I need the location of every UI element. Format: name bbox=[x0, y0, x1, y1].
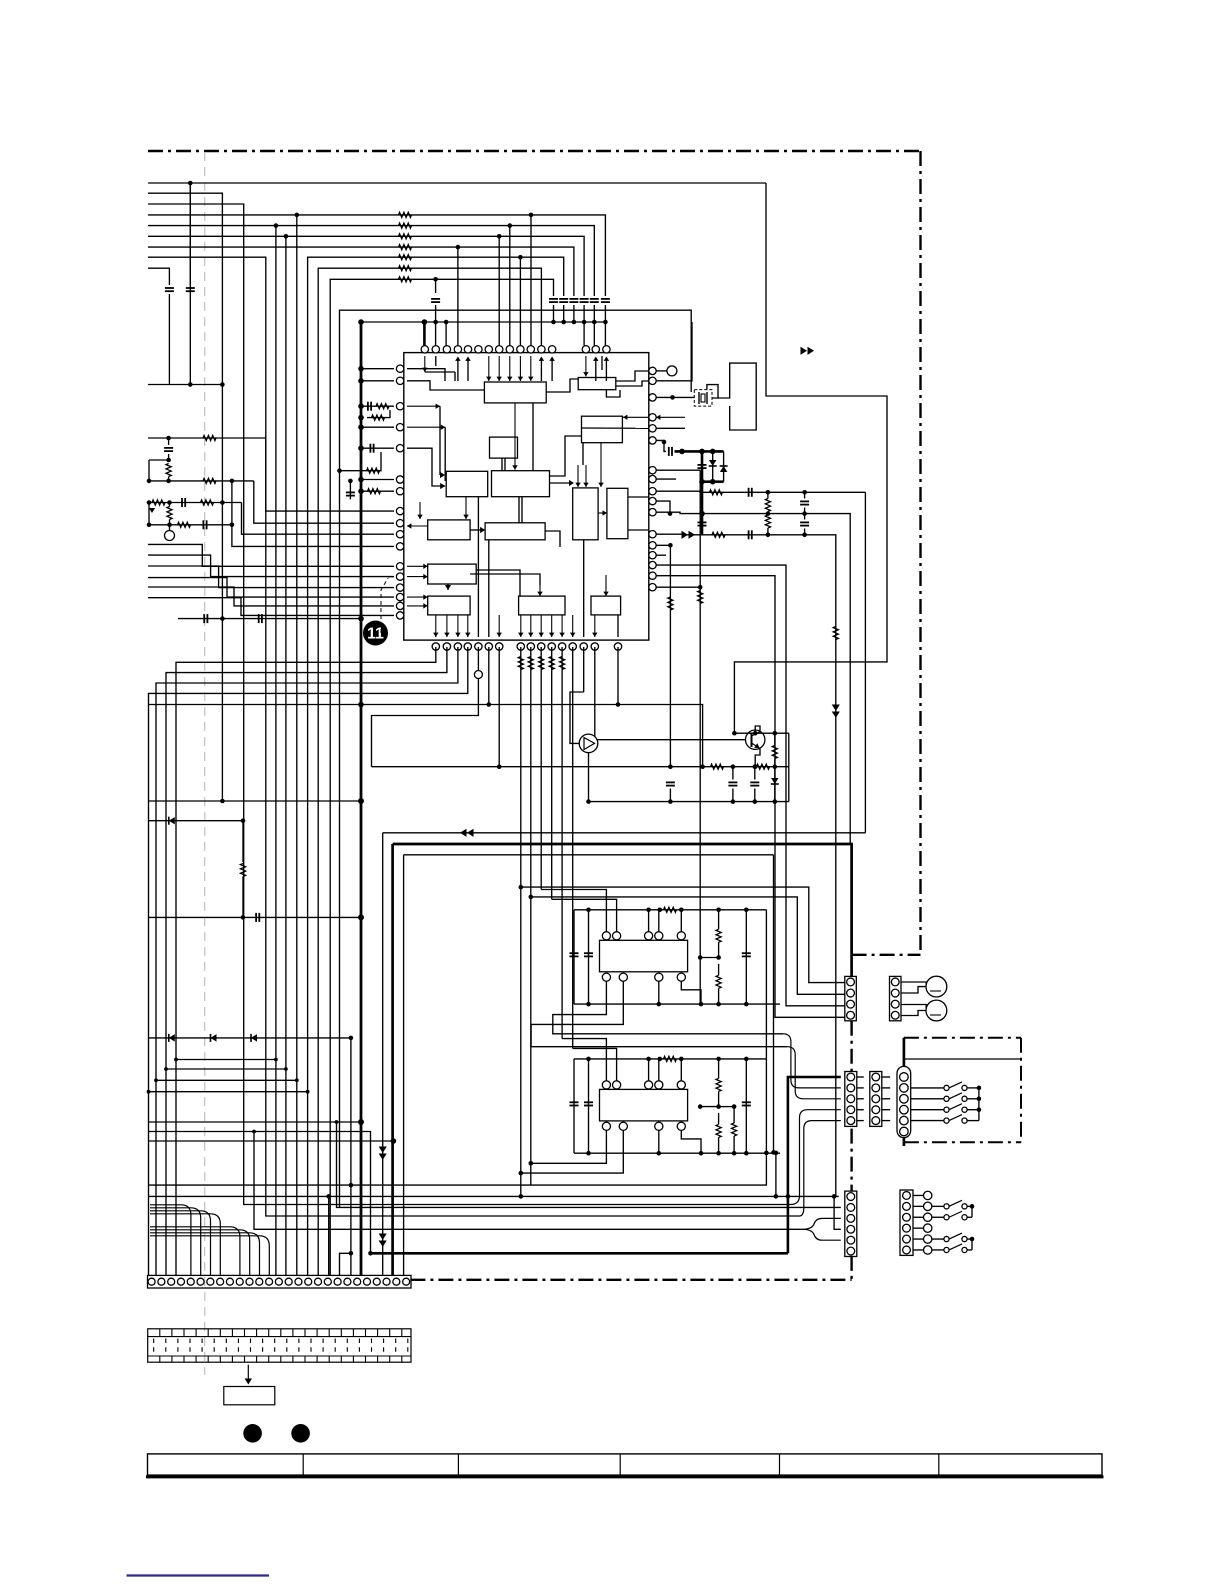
junction bbox=[753, 764, 758, 769]
junction bbox=[368, 1251, 373, 1256]
wire pinfeed bbox=[435, 305, 437, 346]
wire int down bbox=[520, 615, 522, 637]
wire cap2 leg bbox=[588, 910, 590, 1004]
junction bbox=[147, 1090, 151, 1094]
wire link45 bbox=[882, 1120, 890, 1122]
wire link34 bbox=[857, 1098, 864, 1100]
wire fan 524->546 bbox=[232, 525, 394, 547]
wire loopA bbox=[383, 832, 866, 834]
transistor Q1 bbox=[579, 734, 598, 753]
junction bbox=[679, 908, 684, 913]
pin bbox=[527, 346, 534, 353]
capacitor filter bbox=[569, 298, 578, 300]
wire rail bottom bbox=[574, 1003, 780, 1005]
capacitor bbox=[698, 464, 707, 466]
junction bbox=[592, 320, 597, 325]
wire cap bottom bbox=[573, 305, 575, 322]
resistor bbox=[399, 234, 412, 239]
wire y1185 bbox=[148, 1153, 766, 1185]
junction bbox=[658, 908, 663, 913]
wire int down bbox=[467, 615, 469, 637]
wire stair1 bbox=[176, 1059, 276, 1061]
pin bbox=[677, 973, 685, 981]
wire left to b5b bbox=[407, 426, 445, 428]
pin bbox=[619, 973, 627, 981]
wire bp4 jog bbox=[681, 981, 701, 1004]
resistor vert bbox=[765, 515, 770, 528]
connector pin bbox=[847, 1236, 855, 1244]
junction bbox=[164, 1067, 168, 1071]
wire pin488 drop bbox=[488, 647, 490, 705]
junction bbox=[699, 449, 705, 455]
junction bbox=[335, 1120, 339, 1124]
wire cn6 v bbox=[834, 1196, 841, 1229]
junction bbox=[188, 382, 193, 387]
wire x865 vert bbox=[864, 492, 866, 833]
capacitor filter bbox=[590, 298, 599, 300]
wire sw2 lead bbox=[932, 1205, 944, 1207]
resistor vert bbox=[166, 464, 171, 477]
wire pin369 stub bbox=[361, 368, 394, 370]
junction bbox=[786, 1194, 791, 1199]
pin bbox=[396, 593, 403, 600]
wire bus line3 bbox=[148, 204, 791, 1205]
connector pin bbox=[847, 1073, 855, 1081]
junction bbox=[349, 1251, 354, 1256]
junction bbox=[358, 616, 364, 622]
wire b12 in2 bbox=[407, 605, 428, 607]
resistor bbox=[664, 1056, 677, 1061]
wire pin618 drop bbox=[618, 647, 703, 767]
pin bbox=[649, 552, 656, 559]
wire cap stub bbox=[168, 438, 170, 445]
wire bus line bbox=[148, 215, 605, 296]
wire rv3 bbox=[774, 733, 776, 745]
wire pin555 stub bbox=[656, 554, 666, 556]
connector pin bbox=[847, 1214, 855, 1222]
pin bbox=[443, 643, 450, 650]
dashed leader bbox=[388, 576, 394, 578]
connector pin bbox=[177, 1278, 184, 1285]
wire cv5 bbox=[754, 767, 756, 780]
switch S bbox=[944, 1096, 949, 1101]
wire y820 diode bbox=[148, 821, 243, 862]
junction bbox=[679, 1057, 684, 1062]
capacitor bbox=[164, 447, 173, 449]
wire int bbox=[424, 356, 426, 372]
wire link34 bbox=[857, 1120, 864, 1122]
wire rv bot bbox=[718, 1113, 720, 1125]
switch box bottom bbox=[904, 1141, 1021, 1143]
pin bbox=[649, 425, 656, 432]
wire pin478 drop2 bbox=[372, 679, 479, 767]
switch box left bold bbox=[903, 1038, 906, 1067]
wire b7b8 bbox=[598, 512, 607, 514]
resistor bbox=[201, 500, 214, 505]
junction bbox=[662, 440, 667, 445]
connector shell bbox=[890, 976, 902, 1020]
wire b3 out bbox=[582, 427, 649, 429]
connector pin bbox=[872, 1106, 880, 1114]
wire int down bbox=[617, 615, 619, 637]
resistor bbox=[399, 277, 412, 282]
junction bbox=[977, 1107, 982, 1112]
capacitor vert bbox=[800, 500, 809, 502]
pin bbox=[613, 1081, 621, 1089]
pin bbox=[602, 1122, 610, 1130]
capacitor bbox=[202, 520, 204, 529]
wire cap bottom bbox=[563, 305, 565, 322]
wire b1 down to b6 bbox=[514, 403, 516, 470]
wire cap a2 bbox=[168, 294, 170, 385]
resistor vert bbox=[716, 975, 721, 988]
junction bbox=[699, 1002, 704, 1007]
junction bbox=[358, 424, 364, 430]
wire x328 down bbox=[328, 1196, 330, 1275]
shield border corner to CN (dash-dot) bbox=[852, 954, 921, 956]
junction bbox=[616, 702, 621, 707]
pin bbox=[649, 542, 656, 549]
junction bbox=[773, 764, 778, 769]
wire drop x296 bbox=[296, 215, 298, 1276]
wire esc1 bbox=[176, 647, 436, 1275]
pin bbox=[485, 643, 492, 650]
wire b11 in2 bbox=[407, 576, 428, 578]
pin bbox=[538, 643, 545, 650]
wire b13 top bbox=[539, 585, 541, 596]
pin bbox=[649, 497, 656, 504]
junction bbox=[284, 1067, 288, 1071]
junction bbox=[603, 320, 608, 325]
shield dashdot v3 bbox=[850, 1129, 852, 1192]
wire int long1 bbox=[601, 356, 603, 370]
wire bp3 down bbox=[658, 981, 660, 1004]
junction bbox=[349, 1183, 354, 1188]
wire loopC bbox=[404, 854, 774, 856]
wire rv bbox=[767, 492, 769, 498]
switch S bbox=[944, 1107, 949, 1112]
junction bbox=[306, 1090, 310, 1094]
wire cap down bbox=[168, 454, 170, 460]
wire pin417 stub bbox=[656, 416, 685, 418]
wire x350 down bbox=[350, 1038, 352, 1276]
junction bbox=[977, 1086, 982, 1091]
resistor bbox=[367, 468, 380, 473]
junction bbox=[970, 1237, 975, 1242]
resistor vert bbox=[765, 499, 770, 512]
wire riser seg10 bbox=[330, 279, 553, 1275]
resistor bbox=[152, 500, 165, 505]
resistor vert bbox=[518, 657, 523, 670]
junction bbox=[977, 1097, 982, 1102]
connector pin bbox=[900, 1073, 909, 1082]
wire drop bbox=[540, 647, 542, 890]
diode pair D2 bbox=[723, 451, 725, 481]
junction bbox=[710, 449, 716, 455]
wire int down bbox=[551, 615, 553, 637]
wire pin380 r bbox=[656, 322, 692, 381]
connector shell bbox=[845, 976, 857, 1020]
resistor vert bbox=[167, 507, 172, 520]
diode left bbox=[148, 503, 150, 525]
junction bbox=[668, 764, 673, 769]
junction bbox=[744, 908, 749, 913]
pin bbox=[677, 1081, 685, 1089]
resistor bbox=[664, 907, 677, 912]
wire link34 bbox=[857, 1087, 864, 1089]
wire bus line8 bbox=[148, 257, 800, 1216]
wire sw lead bbox=[911, 1098, 944, 1100]
wire CN3p5 feed bbox=[800, 1121, 841, 1216]
junction bbox=[582, 320, 587, 325]
resistor bbox=[376, 404, 389, 409]
wire pin501 j bbox=[656, 501, 670, 513]
wire int down bbox=[446, 615, 448, 637]
wire bold rail bbox=[675, 450, 724, 453]
wire cv bbox=[804, 492, 806, 498]
switch box innerline bbox=[904, 1058, 1021, 1060]
pin bbox=[432, 346, 439, 353]
table column line bbox=[302, 1454, 304, 1475]
connector pin bbox=[847, 1247, 855, 1255]
wire curved drop bbox=[150, 1233, 260, 1276]
shield border right (dash-dot) bbox=[919, 151, 921, 955]
junction bbox=[716, 1002, 721, 1007]
wire b3 down bbox=[600, 443, 602, 487]
wire sw2 out bbox=[967, 1205, 972, 1207]
wire y1131 bbox=[148, 1132, 370, 1254]
junction bbox=[252, 1130, 256, 1134]
wire x700 down bbox=[699, 470, 701, 1004]
wire int up bbox=[540, 358, 542, 382]
junction bbox=[646, 908, 651, 913]
wire fan6 bbox=[148, 598, 394, 616]
capacitor C_b bbox=[186, 287, 195, 289]
wire x775 link bbox=[775, 1153, 777, 1197]
capacitor vert bbox=[750, 781, 759, 783]
junction bbox=[551, 320, 556, 325]
wire sw lead bbox=[911, 1120, 944, 1122]
wire int bbox=[530, 356, 532, 381]
wire pin448 r2 bbox=[340, 452, 382, 471]
wire bold y1253 bbox=[372, 1252, 788, 1255]
capacitor bbox=[346, 491, 355, 493]
junction bbox=[586, 1057, 591, 1062]
junction bbox=[154, 1078, 158, 1082]
wire int long3 bbox=[476, 570, 520, 596]
wire b9 right bbox=[470, 529, 485, 531]
capacitor C_c bbox=[431, 298, 440, 300]
wire curved drop bbox=[150, 1230, 250, 1276]
connector pin bbox=[217, 1278, 224, 1285]
wire sw out bbox=[967, 1087, 979, 1089]
wire ic2 bp1 to CN3p2 bbox=[553, 981, 783, 1034]
pin bbox=[396, 377, 403, 384]
wire drop bbox=[520, 647, 522, 1196]
junction bbox=[679, 449, 685, 455]
wire fan5 bbox=[148, 587, 394, 606]
wire res2 bbox=[169, 520, 171, 525]
wire x788 bbox=[788, 733, 790, 767]
wire rail801 up bbox=[788, 767, 790, 802]
wire rv bot2 bbox=[718, 1137, 720, 1153]
wire rail y322 bbox=[361, 321, 605, 323]
wire sw2 out bbox=[967, 1216, 972, 1218]
capacitor bbox=[668, 447, 670, 456]
U11 block B13 bbox=[519, 596, 565, 615]
wire b2 out bbox=[616, 371, 649, 381]
junction bbox=[668, 543, 673, 548]
wire curved drop bbox=[150, 1214, 220, 1276]
wire pin491 r bbox=[361, 490, 394, 492]
junction bbox=[220, 382, 225, 387]
wire left y524 bbox=[148, 524, 232, 526]
wire fan1 bbox=[148, 544, 394, 566]
junction bbox=[586, 1002, 591, 1007]
pin bbox=[649, 394, 656, 401]
U11 block B6 bbox=[492, 471, 550, 497]
open pin below bbox=[474, 671, 482, 679]
pin bbox=[496, 643, 503, 650]
connector pin bbox=[334, 1278, 341, 1285]
connector pin bbox=[275, 1278, 282, 1285]
connector pin bbox=[363, 1278, 370, 1285]
junction bbox=[358, 445, 364, 451]
wire link45 bbox=[882, 1087, 890, 1089]
wire y704 bbox=[148, 704, 618, 706]
wire cv3 bbox=[669, 789, 671, 802]
connector pin bbox=[900, 1084, 909, 1093]
diode bbox=[211, 1034, 217, 1041]
junction bbox=[358, 798, 364, 804]
junction bbox=[572, 320, 577, 325]
wire pin428 stub bbox=[656, 427, 685, 429]
connector pin bbox=[847, 1095, 855, 1103]
wire rv top bbox=[718, 1059, 720, 1079]
wire int bbox=[509, 356, 511, 381]
pin bbox=[548, 346, 555, 353]
pin bbox=[649, 414, 656, 421]
junction bbox=[802, 511, 807, 516]
resistor vert bbox=[668, 597, 673, 610]
wire pin594 drop bbox=[595, 647, 746, 740]
junction bbox=[700, 764, 705, 769]
pin bbox=[677, 932, 685, 940]
wire int left1 bbox=[407, 369, 445, 381]
junction bbox=[358, 415, 364, 421]
junction bbox=[766, 533, 771, 538]
wire b5 down bbox=[465, 497, 467, 519]
wire rail2 bbox=[702, 480, 724, 483]
junction bbox=[391, 1138, 397, 1144]
wire b6 right bbox=[550, 482, 573, 484]
U11 block B5 bbox=[446, 471, 488, 496]
wire bus line bbox=[148, 247, 574, 296]
wire rail top bbox=[574, 909, 766, 911]
pin bbox=[602, 932, 610, 940]
revision table bbox=[148, 1454, 1103, 1475]
pin bbox=[432, 643, 439, 650]
shield dashdot bottom bbox=[410, 1279, 851, 1281]
wire int bbox=[435, 356, 437, 366]
wire pinfeed3 bbox=[583, 322, 585, 346]
junction bbox=[753, 799, 758, 804]
junction bbox=[519, 1171, 524, 1176]
capacitor vert bbox=[666, 781, 675, 783]
capacitor bbox=[584, 1101, 593, 1103]
capacitor vert bbox=[728, 781, 737, 783]
wire fan 502->534 bbox=[242, 503, 395, 535]
wire cap2 leg bbox=[588, 1059, 590, 1153]
connector pin bbox=[872, 1073, 880, 1081]
junction bbox=[147, 500, 152, 505]
junction bbox=[716, 1151, 721, 1156]
junction bbox=[744, 1002, 749, 1007]
wire rv extra2 bbox=[733, 1136, 735, 1153]
junction bbox=[274, 223, 279, 228]
wire rv extra bbox=[733, 1107, 735, 1123]
wire sw2 lead bbox=[932, 1249, 944, 1251]
wire int down bbox=[457, 615, 459, 637]
wire int down bbox=[498, 615, 500, 637]
connector pin bbox=[903, 1224, 911, 1232]
junction bbox=[147, 523, 152, 528]
pin bbox=[655, 932, 663, 940]
ribbon cable band bbox=[148, 1329, 411, 1362]
pin bbox=[582, 346, 589, 353]
capacitor bbox=[203, 614, 205, 623]
wire pin478 drop bbox=[477, 647, 479, 671]
wire y917 bbox=[148, 916, 361, 918]
junction bbox=[220, 500, 225, 505]
wire pinfeed4 bbox=[593, 322, 595, 346]
connector pin bbox=[403, 1278, 410, 1285]
junction bbox=[802, 490, 807, 495]
junction bbox=[295, 213, 300, 218]
switch box top bbox=[904, 1037, 1021, 1039]
wire rv2 bbox=[767, 514, 769, 515]
wire link45 bbox=[882, 1098, 890, 1100]
wire pinfeed5 bbox=[604, 322, 606, 346]
wire left y502 bbox=[148, 502, 242, 504]
pin bbox=[592, 346, 599, 353]
pin bbox=[396, 507, 403, 514]
pin bbox=[591, 643, 598, 650]
pin bbox=[396, 531, 403, 538]
connector pin bbox=[285, 1278, 292, 1285]
wire mid stub bbox=[700, 957, 718, 959]
junction bbox=[518, 255, 523, 260]
pin bbox=[496, 346, 503, 353]
wire bold bus x361 bbox=[360, 322, 363, 1275]
pin bbox=[603, 346, 610, 353]
dd arrow down bbox=[832, 705, 840, 712]
pin bbox=[517, 643, 524, 650]
resistor bbox=[712, 532, 725, 537]
pin bbox=[396, 612, 403, 619]
junction bbox=[487, 702, 492, 707]
wire drop bbox=[551, 647, 553, 899]
junction bbox=[230, 523, 235, 528]
wire res bbox=[169, 503, 171, 507]
wire b6 down pair bbox=[518, 497, 520, 523]
dd arrow down3 bbox=[379, 1234, 387, 1241]
ribbon hatch bbox=[148, 1329, 411, 1362]
junction bbox=[167, 523, 172, 528]
capacitor bbox=[698, 521, 707, 523]
wire b8 out2 bbox=[628, 529, 649, 531]
wire y618 bbox=[178, 618, 361, 620]
